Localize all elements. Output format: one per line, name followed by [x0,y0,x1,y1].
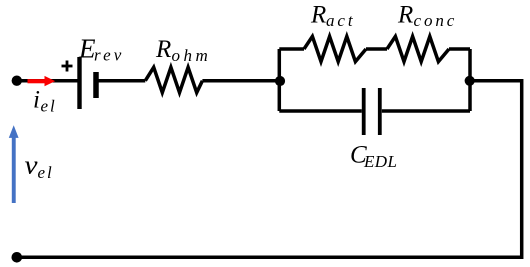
svg-text:conc: conc [414,11,458,30]
svg-text:R: R [397,2,413,29]
svg-text:el: el [38,163,54,182]
svg-text:i: i [33,87,40,114]
svg-text:ohm: ohm [172,46,212,65]
svg-text:R: R [310,2,326,29]
svg-text:act: act [326,11,355,30]
svg-text:EDL: EDL [363,152,397,171]
svg-text:R: R [155,36,171,63]
svg-text:el: el [41,97,57,116]
svg-text:rev: rev [94,46,124,65]
svg-text:v: v [25,151,39,180]
